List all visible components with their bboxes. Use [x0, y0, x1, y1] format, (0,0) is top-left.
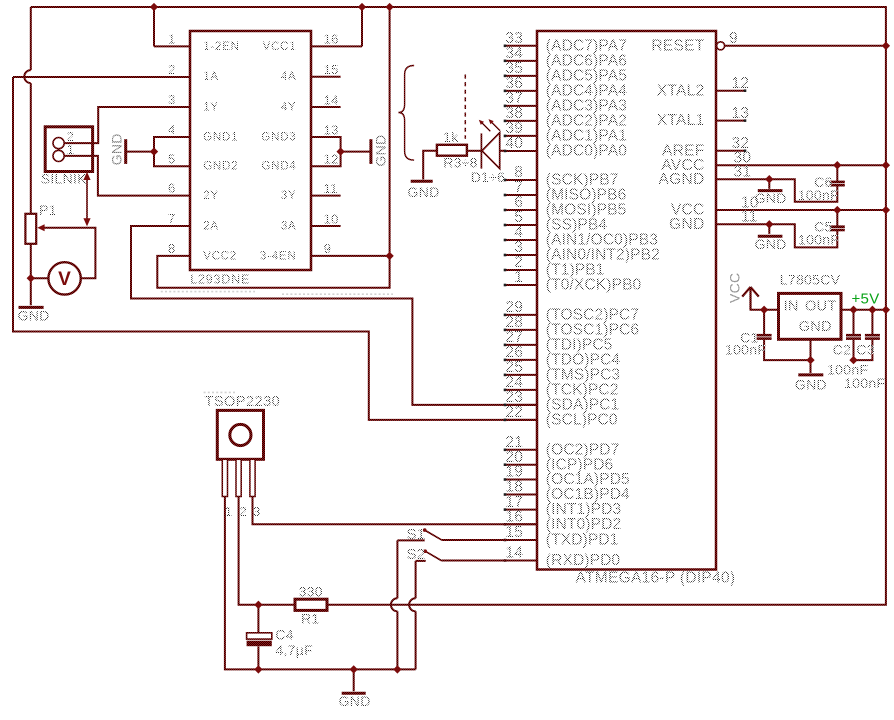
- svg-text:6: 6: [168, 181, 176, 196]
- svg-text:P1: P1: [39, 202, 57, 218]
- svg-text:2: 2: [240, 504, 248, 519]
- svg-text:1: 1: [168, 31, 176, 46]
- svg-text:GND: GND: [18, 307, 50, 323]
- svg-text:VCC2: VCC2: [203, 250, 237, 262]
- svg-text:GND: GND: [408, 184, 440, 200]
- svg-text:13: 13: [324, 122, 339, 137]
- svg-text:GND: GND: [109, 133, 125, 165]
- svg-text:D1÷6: D1÷6: [471, 169, 506, 185]
- svg-text:3-4EN: 3-4EN: [260, 250, 297, 262]
- svg-text:(T0/XCK)PB0: (T0/XCK)PB0: [546, 277, 642, 294]
- svg-text:14: 14: [505, 545, 523, 562]
- svg-text:1: 1: [514, 269, 523, 286]
- svg-text:1k: 1k: [443, 129, 459, 145]
- svg-text:16: 16: [324, 32, 339, 47]
- svg-text:11: 11: [741, 209, 758, 226]
- svg-text:ATMEGA16-P (DIP40): ATMEGA16-P (DIP40): [576, 570, 736, 587]
- svg-text:GND: GND: [795, 377, 827, 393]
- svg-text:(INT0)PD2: (INT0)PD2: [546, 516, 621, 533]
- svg-text:14: 14: [324, 92, 339, 107]
- svg-text:2Y: 2Y: [203, 190, 219, 202]
- svg-text:2A: 2A: [203, 220, 219, 232]
- svg-text:12: 12: [732, 75, 750, 92]
- svg-text:OUT: OUT: [805, 298, 837, 314]
- svg-text:C3: C3: [856, 342, 875, 358]
- svg-text:3A: 3A: [281, 220, 297, 232]
- svg-text:VCC1: VCC1: [263, 41, 297, 53]
- svg-text:7: 7: [168, 211, 176, 226]
- svg-text:GND: GND: [755, 236, 787, 252]
- svg-text:S2: S2: [407, 546, 426, 563]
- svg-text:(SCL)PC0: (SCL)PC0: [546, 412, 618, 429]
- svg-text:1A: 1A: [203, 71, 219, 83]
- svg-text:22: 22: [505, 404, 523, 421]
- svg-text:S1: S1: [407, 526, 426, 543]
- svg-text:XTAL2: XTAL2: [657, 82, 705, 99]
- svg-text:GND1: GND1: [203, 131, 238, 143]
- svg-text:GND4: GND4: [261, 161, 296, 173]
- svg-text:1: 1: [225, 504, 233, 519]
- svg-text:100nF: 100nF: [844, 375, 885, 391]
- svg-text:11: 11: [324, 181, 338, 196]
- svg-text:31: 31: [734, 164, 752, 181]
- svg-text:10: 10: [324, 211, 339, 226]
- svg-text:13: 13: [732, 105, 750, 122]
- svg-text:2: 2: [168, 62, 176, 77]
- svg-text:XTAL1: XTAL1: [657, 112, 705, 129]
- svg-text:12: 12: [324, 152, 339, 167]
- svg-text:1: 1: [67, 142, 75, 157]
- svg-text:4: 4: [168, 122, 176, 137]
- svg-text:GND2: GND2: [203, 161, 238, 173]
- svg-text:9: 9: [729, 30, 738, 47]
- svg-text:R1: R1: [301, 611, 320, 627]
- svg-text:L7805CV: L7805CV: [780, 271, 841, 287]
- svg-text:1-2EN: 1-2EN: [203, 41, 240, 53]
- svg-text:4A: 4A: [281, 71, 297, 83]
- svg-text:GND: GND: [339, 693, 371, 709]
- svg-text:+5V: +5V: [852, 290, 880, 307]
- svg-text:40: 40: [505, 135, 523, 152]
- svg-text:L293DNE: L293DNE: [190, 272, 250, 286]
- svg-text:1Y: 1Y: [203, 101, 219, 113]
- svg-text:R3÷8: R3÷8: [443, 154, 478, 170]
- svg-text:C4: C4: [275, 627, 294, 643]
- svg-text:IN: IN: [784, 298, 799, 314]
- svg-text:GND: GND: [669, 216, 704, 233]
- svg-text:100nF: 100nF: [798, 232, 839, 248]
- svg-text:GND: GND: [755, 190, 787, 206]
- svg-text:15: 15: [324, 62, 339, 77]
- svg-text:3: 3: [168, 92, 176, 107]
- svg-text:RESET: RESET: [651, 37, 704, 54]
- svg-text:16: 16: [505, 509, 523, 526]
- svg-text:GND3: GND3: [261, 131, 296, 143]
- svg-text:V: V: [58, 269, 71, 290]
- svg-text:3: 3: [253, 504, 261, 519]
- svg-text:330: 330: [299, 583, 323, 599]
- svg-text:8: 8: [168, 241, 176, 256]
- svg-text:3Y: 3Y: [281, 190, 297, 202]
- svg-text:VCC: VCC: [726, 273, 742, 303]
- svg-text:SILNIK: SILNIK: [41, 171, 88, 187]
- svg-text:100nF: 100nF: [725, 342, 766, 358]
- svg-text:AGND: AGND: [659, 171, 705, 188]
- svg-text:4,7µF: 4,7µF: [275, 642, 313, 658]
- svg-text:(TXD)PD1: (TXD)PD1: [546, 532, 619, 549]
- svg-text:C2: C2: [833, 342, 852, 358]
- svg-text:15: 15: [505, 524, 523, 541]
- svg-text:TSOP2230: TSOP2230: [205, 394, 281, 410]
- svg-text:(ADC0)PA0: (ADC0)PA0: [546, 143, 627, 160]
- svg-text:4Y: 4Y: [281, 101, 297, 113]
- svg-text:9: 9: [324, 241, 332, 256]
- svg-text:5: 5: [168, 151, 176, 166]
- svg-text:(RXD)PD0: (RXD)PD0: [546, 552, 621, 569]
- svg-text:GND: GND: [373, 135, 389, 167]
- svg-text:100nF: 100nF: [798, 187, 839, 203]
- svg-text:GND: GND: [799, 319, 832, 335]
